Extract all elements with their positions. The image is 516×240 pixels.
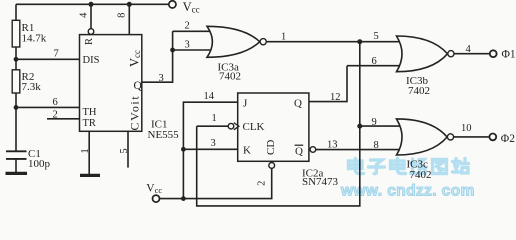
svg-text:10: 10 [461, 123, 472, 134]
svg-text:NE555: NE555 [148, 129, 180, 141]
svg-text:TH: TH [83, 107, 97, 118]
555 timer IC1 NE555 box [80, 35, 142, 132]
svg-text:7402: 7402 [219, 71, 241, 83]
wire node TH to 555 pin6 [16, 106, 80, 108]
svg-text:14.7k: 14.7k [22, 33, 47, 45]
svg-text:2: 2 [185, 21, 190, 32]
svg-text:4: 4 [466, 44, 472, 55]
NOR gate IC3a 7402 [207, 26, 266, 82]
node Vcc bottom [181, 196, 186, 201]
wire Q pin12 to IC3b pin6 [309, 66, 347, 102]
svg-text:TR: TR [83, 118, 96, 129]
svg-text:SN7473: SN7473 [302, 176, 339, 188]
wire IC3b input pin6 [347, 65, 404, 67]
电 [349, 159, 364, 174]
svg-text:R: R [84, 38, 95, 45]
wire 555 pin5 stub [127, 131, 129, 167]
svg-text:14: 14 [204, 91, 215, 102]
svg-text:Q: Q [134, 80, 143, 92]
svg-text:2: 2 [256, 181, 267, 186]
svg-text:1: 1 [212, 113, 217, 124]
node pin4 rail [89, 2, 94, 7]
svg-text:Φ2: Φ2 [501, 133, 515, 145]
ground 555 pin1 [80, 174, 100, 177]
node pin8 rail [127, 2, 132, 7]
svg-text:CLK: CLK [243, 121, 265, 133]
wire K pin3 [183, 148, 237, 150]
terminal PHI2 [489, 134, 496, 141]
Vcc terminal bottom [153, 195, 160, 202]
wire 555 Q pin3 out [142, 31, 173, 82]
CLK bubble [228, 123, 234, 129]
NOR gate IC3b 7402 [397, 36, 455, 97]
wire top rail [16, 3, 169, 5]
wire 555 pin1 to ground [88, 131, 90, 174]
svg-text:100p: 100p [28, 158, 51, 170]
CLK edge wedge [234, 123, 239, 130]
svg-text:2: 2 [53, 109, 58, 120]
子 [369, 160, 385, 174]
svg-text:1: 1 [281, 32, 286, 43]
svg-text:J: J [243, 98, 248, 110]
wire Vcc bottom to CD pin2 [160, 168, 272, 198]
resistor R1 [12, 20, 20, 47]
watermark www.cndzz.com [340, 159, 475, 200]
wire TR stub to 555 pin2 [47, 118, 80, 120]
node clock bus pin9 [357, 124, 362, 129]
wire left column down to R1 [15, 4, 17, 20]
svg-text:DIS: DIS [83, 55, 100, 66]
CD bubble [269, 163, 275, 169]
svg-text:8: 8 [116, 13, 127, 18]
wire IC3a out to IC3b pin5 [266, 41, 404, 43]
svg-text:8: 8 [374, 140, 379, 151]
svg-text:1: 1 [80, 148, 91, 153]
wire CLK into FF [197, 125, 229, 127]
capacitor C1 [6, 151, 27, 159]
wire IC3c input pin9 [360, 125, 404, 127]
svg-text:12: 12 [330, 92, 341, 103]
node IC3a inputs [170, 48, 175, 53]
wire 555 pin4 from rail [90, 4, 92, 28]
svg-text:5: 5 [374, 31, 379, 42]
svg-text:3: 3 [185, 40, 190, 51]
svg-text:7402: 7402 [410, 169, 432, 181]
svg-text:4: 4 [79, 12, 90, 18]
wire IC3c out pin10 [454, 136, 489, 138]
node R2-C1 TH [14, 105, 19, 110]
svg-text:CD: CD [265, 140, 277, 155]
wire R1 to R2 [15, 47, 17, 70]
电 [391, 159, 406, 174]
terminal PHI1 [490, 50, 497, 57]
node R1-R2 DIS [14, 57, 19, 62]
555 label CVoit rotated [128, 95, 142, 131]
svg-text:3: 3 [211, 138, 216, 149]
wire C1 to ground [15, 159, 17, 173]
svg-text:7: 7 [54, 49, 59, 60]
wire R2 to C1 [15, 93, 17, 151]
svg-text:K: K [243, 144, 251, 156]
wire 555 pin8 from rail [128, 4, 130, 34]
svg-text:5: 5 [119, 148, 130, 153]
路 [411, 159, 427, 174]
svg-text:Vcc: Vcc [146, 182, 162, 195]
555 label Vcc rotated [128, 50, 143, 67]
ground C1 [6, 172, 28, 175]
wire IC3a input pin2 [173, 30, 213, 32]
svg-text:Q: Q [294, 98, 302, 110]
图 [433, 160, 447, 174]
resistor R2 [12, 70, 20, 93]
svg-text:9: 9 [372, 117, 377, 128]
NOR gate IC3c 7402 [397, 119, 454, 181]
Qbar bubble [310, 147, 316, 153]
wire Qbar pin13 to IC3c pin8 [316, 149, 404, 151]
wire IC3a input pin3 [173, 49, 213, 51]
svg-text:6: 6 [53, 97, 58, 108]
svg-text:Vcc: Vcc [183, 0, 200, 14]
svg-text:CVoit: CVoit [128, 95, 142, 131]
svg-text:7.3k: 7.3k [22, 81, 42, 93]
flip-flop IC2a SN7473 box [238, 93, 309, 161]
wire clock bus down [197, 42, 360, 206]
svg-text:7402: 7402 [408, 85, 430, 97]
wire node DIS to 555 pin7 [16, 58, 80, 60]
svg-text:6: 6 [372, 56, 377, 67]
svg-text:3: 3 [159, 73, 164, 84]
站 [453, 159, 469, 174]
wire J pin14 [183, 102, 237, 198]
node clock bus top [357, 39, 362, 44]
node JK tie [181, 147, 186, 152]
svg-text:13: 13 [327, 140, 338, 151]
wire IC3b out pin4 [454, 53, 489, 55]
svg-text:Φ1: Φ1 [502, 48, 516, 60]
svg-text:Q: Q [295, 145, 303, 157]
555 reset bubble pin4 [88, 29, 94, 35]
Vcc terminal top [169, 1, 176, 8]
